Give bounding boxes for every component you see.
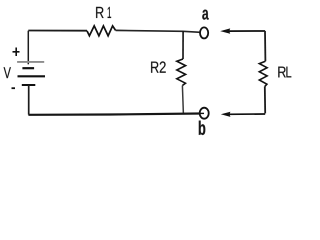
R1 value label: R: [96, 7, 104, 18]
resistor R2: [177, 59, 186, 86]
wire: arrow line into node b: [228, 113, 265, 115]
battery V plate 1 long (positive, light): [17, 61, 44, 63]
wire: top wire from R1 to node a: [116, 30, 201, 32]
wire stub into node b: [200, 112, 204, 114]
wire: bottom wire from battery to node b: [28, 114, 200, 115]
resistor RL: [259, 61, 267, 86]
node b label: [199, 121, 206, 135]
arrowhead at node b: [221, 112, 231, 117]
R2 value label: 2: [160, 61, 166, 72]
battery V plate 4 short: [22, 84, 36, 86]
arrowhead at node a: [220, 28, 230, 33]
wire: battery bottom vertical: [28, 85, 30, 115]
battery V label: [4, 67, 11, 78]
wire: top wire from battery corner to R1: [28, 30, 87, 32]
wire: arrow line into node a: [228, 30, 265, 32]
wire: battery top vertical: [27, 31, 29, 65]
node a terminal circle: [200, 27, 208, 38]
resistor R1: [87, 26, 116, 36]
node a label: [202, 10, 208, 20]
battery V plate 3 long: [18, 75, 46, 77]
RL value label: L: [286, 67, 291, 78]
wire: right branch bottom vertical: [264, 86, 266, 113]
R1 value label: 1: [108, 7, 112, 18]
R2 value label: R: [151, 62, 159, 73]
wire: R2 branch top vertical: [182, 31, 184, 59]
RL value label: R: [278, 67, 286, 78]
battery minus sign: [12, 87, 16, 89]
battery V plate 2 short: [22, 67, 34, 69]
battery plus sign: [13, 48, 20, 57]
node b terminal circle: [200, 108, 209, 119]
wire: right branch top vertical: [264, 31, 266, 61]
wire: R2 branch bottom vertical: [182, 86, 183, 115]
